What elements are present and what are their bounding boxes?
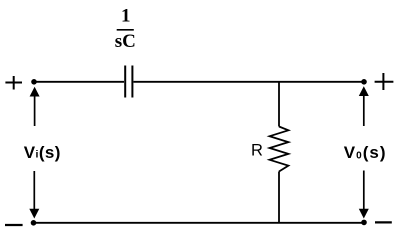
svg-text:1: 1 xyxy=(121,6,131,27)
svg-text:Vi(s): Vi(s) xyxy=(24,143,61,162)
svg-text:sC: sC xyxy=(115,31,136,52)
svg-text:R: R xyxy=(251,141,263,159)
svg-text:V0(s): V0(s) xyxy=(344,143,387,162)
